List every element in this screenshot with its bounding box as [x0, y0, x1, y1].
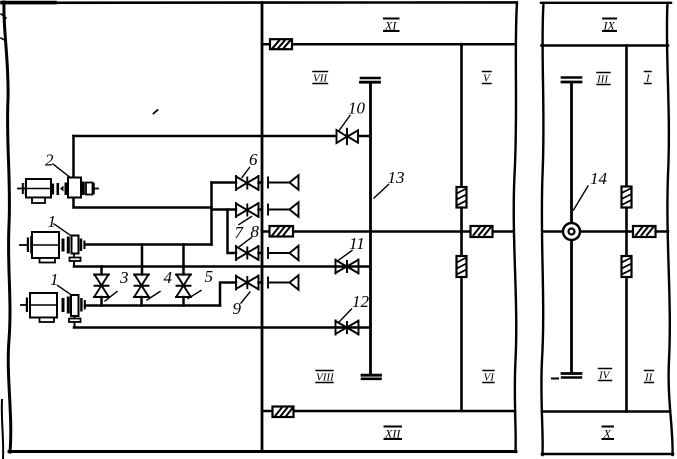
bulkhead penetration lower on vertical main	[457, 256, 467, 277]
svg-text:3: 3	[119, 268, 129, 287]
bulkhead penetration on same line at V/VI bulkhead	[471, 226, 493, 237]
pipe: pump 2 bottom riser	[74, 198, 212, 208]
bulkhead penetration on right panel horizontal line	[633, 226, 656, 237]
pipe: riser junction to valve 6 and down to pump 1 line	[210, 183, 213, 245]
valve 10	[337, 129, 359, 145]
label XI	[384, 19, 399, 33]
svg-text:14: 14	[590, 169, 608, 188]
svg-text:7: 7	[235, 223, 245, 242]
valve 4	[134, 275, 149, 298]
pipe: vertical main between V and VI	[460, 44, 463, 411]
pipe: horizontal line through orifice 8 to right tank	[262, 230, 513, 233]
pump 1 assembly (motor, coupling, pump)	[20, 232, 85, 267]
label 1 (pump 3) with leader	[50, 270, 72, 295]
pipe 13: vertical sounding pipe	[369, 83, 372, 374]
svg-text:II: II	[644, 372, 654, 384]
label 13 with leader	[374, 168, 405, 198]
valve 12	[336, 321, 359, 335]
bulkhead penetration upper right panel	[622, 187, 632, 208]
pipe 14 top cap	[562, 78, 581, 83]
pipe: drop from pump1 line to valve 5	[182, 245, 185, 275]
svg-text:VI: VI	[484, 372, 496, 384]
frame: top border of left+middle panels	[2, 1, 516, 4]
label III	[596, 73, 610, 86]
valve 5	[176, 275, 191, 298]
svg-text:4: 4	[164, 268, 173, 287]
frame: bottom border of left+middle panels	[9, 450, 516, 453]
label 4 with leader	[147, 268, 173, 300]
svg-text:III: III	[596, 74, 609, 86]
valve 9	[236, 276, 262, 290]
valve 8	[236, 246, 262, 260]
bulkhead penetration upper on vertical main	[457, 187, 467, 208]
pipe: drop from pump1 line to valve 4	[141, 245, 144, 275]
bulkhead penetration on XI line	[270, 39, 292, 49]
label 2 with leader	[45, 151, 69, 177]
svg-text:8: 8	[251, 222, 260, 241]
svg-text:2: 2	[45, 151, 54, 170]
nozzle row 1	[268, 175, 299, 190]
pipe: horizontal distribution line right panel	[543, 230, 668, 233]
valve 6	[236, 176, 262, 190]
bulkhead penetration 8 (flange)	[270, 226, 294, 237]
label VIII	[316, 371, 335, 384]
pipe: riser to valve 9	[220, 283, 236, 306]
svg-text:IV: IV	[598, 370, 611, 382]
frame: right panel torn left edge	[541, 3, 543, 455]
label 5 with leader	[188, 267, 213, 299]
bulkhead penetration on XII line	[273, 407, 294, 418]
label 10 with leader	[340, 99, 366, 131]
compartment XI upper strip line	[262, 43, 515, 46]
svg-text:10: 10	[348, 99, 366, 118]
svg-text:V: V	[483, 73, 491, 85]
pump 2 assembly (motor, coupling, pump)	[18, 178, 98, 204]
svg-text:1: 1	[48, 212, 57, 231]
label II	[644, 371, 654, 384]
pipe: pump 3 suction manifold	[85, 304, 220, 307]
nozzle row 4	[268, 275, 299, 290]
pipe: valve bottoms to pump 3 suction line	[102, 297, 184, 306]
stray scan mark	[154, 110, 158, 114]
label VI	[483, 371, 495, 384]
label X	[603, 427, 614, 441]
compartment XII lower strip line	[262, 410, 515, 413]
label I	[645, 72, 652, 85]
svg-text:VII: VII	[313, 73, 328, 85]
fitting: deck bushing circle on pipe 14	[563, 223, 580, 240]
valve 3	[94, 275, 109, 298]
bulkhead: vertical divider between engine room and tanks	[261, 3, 264, 452]
compartment X strip line	[542, 410, 669, 413]
pipe: valve 3 top stub	[100, 267, 103, 275]
pump 3 assembly (motor, coupling, pump)	[21, 293, 86, 328]
label IX	[603, 19, 617, 33]
label V	[483, 72, 492, 85]
pipe: drop to valve 8	[228, 210, 237, 254]
nozzle row 2	[268, 202, 299, 217]
pipe: pump 1 discharge line	[85, 243, 212, 246]
frame: torn right edge of middle panel	[514, 3, 517, 453]
pipe: pump 1 lower line through valve 11 to pipe 13	[74, 265, 370, 268]
pipe 13 top cap	[361, 78, 380, 82]
valve 11	[336, 260, 359, 274]
label XII	[384, 427, 401, 441]
frame: torn left edge	[1, 2, 11, 459]
pipe 13 bottom cap	[362, 375, 381, 379]
bulkhead penetration lower right panel	[622, 256, 632, 277]
pipe: pump 3 lower line through valve 12 to pipe 13	[74, 326, 370, 329]
label VII	[313, 72, 328, 85]
label 8 with leader	[240, 222, 260, 247]
label 9 with leader	[233, 292, 251, 318]
pipe: pump 2 discharge line to valve 10 and pipe 13	[74, 135, 371, 138]
svg-text:12: 12	[352, 292, 370, 311]
nozzle row 3	[268, 246, 299, 261]
pipe: valve 6 branch	[212, 181, 237, 184]
svg-text:6: 6	[249, 150, 258, 169]
label 7 with leader	[235, 217, 252, 243]
svg-text:13: 13	[388, 168, 405, 187]
valve 7	[236, 203, 262, 217]
pipe 14 bottom cap	[552, 374, 581, 379]
compartment IX strip line	[542, 44, 669, 47]
frame: right panel top border	[541, 2, 671, 4]
label 12 with leader	[340, 292, 370, 322]
pipe 14: vertical sounding pipe right panel	[570, 84, 573, 372]
pipe: valve 7 branch	[212, 208, 237, 211]
label 3 with leader	[105, 268, 129, 301]
label 14 with leader	[574, 169, 608, 210]
svg-text:I: I	[645, 73, 651, 85]
frame: right panel bottom border	[542, 453, 673, 456]
label IV	[598, 369, 612, 382]
frame: right panel torn right edge	[667, 3, 673, 455]
pipe: vertical main between I and II	[625, 46, 628, 412]
label 11 with leader	[338, 234, 365, 261]
svg-text:5: 5	[205, 267, 214, 286]
label 6 with leader	[242, 150, 258, 178]
label 1 (pump 1) with leader	[48, 212, 71, 235]
svg-text:9: 9	[233, 299, 242, 318]
pipe: pump 2 suction riser (top)	[72, 136, 75, 178]
svg-text:VIII: VIII	[316, 372, 335, 384]
